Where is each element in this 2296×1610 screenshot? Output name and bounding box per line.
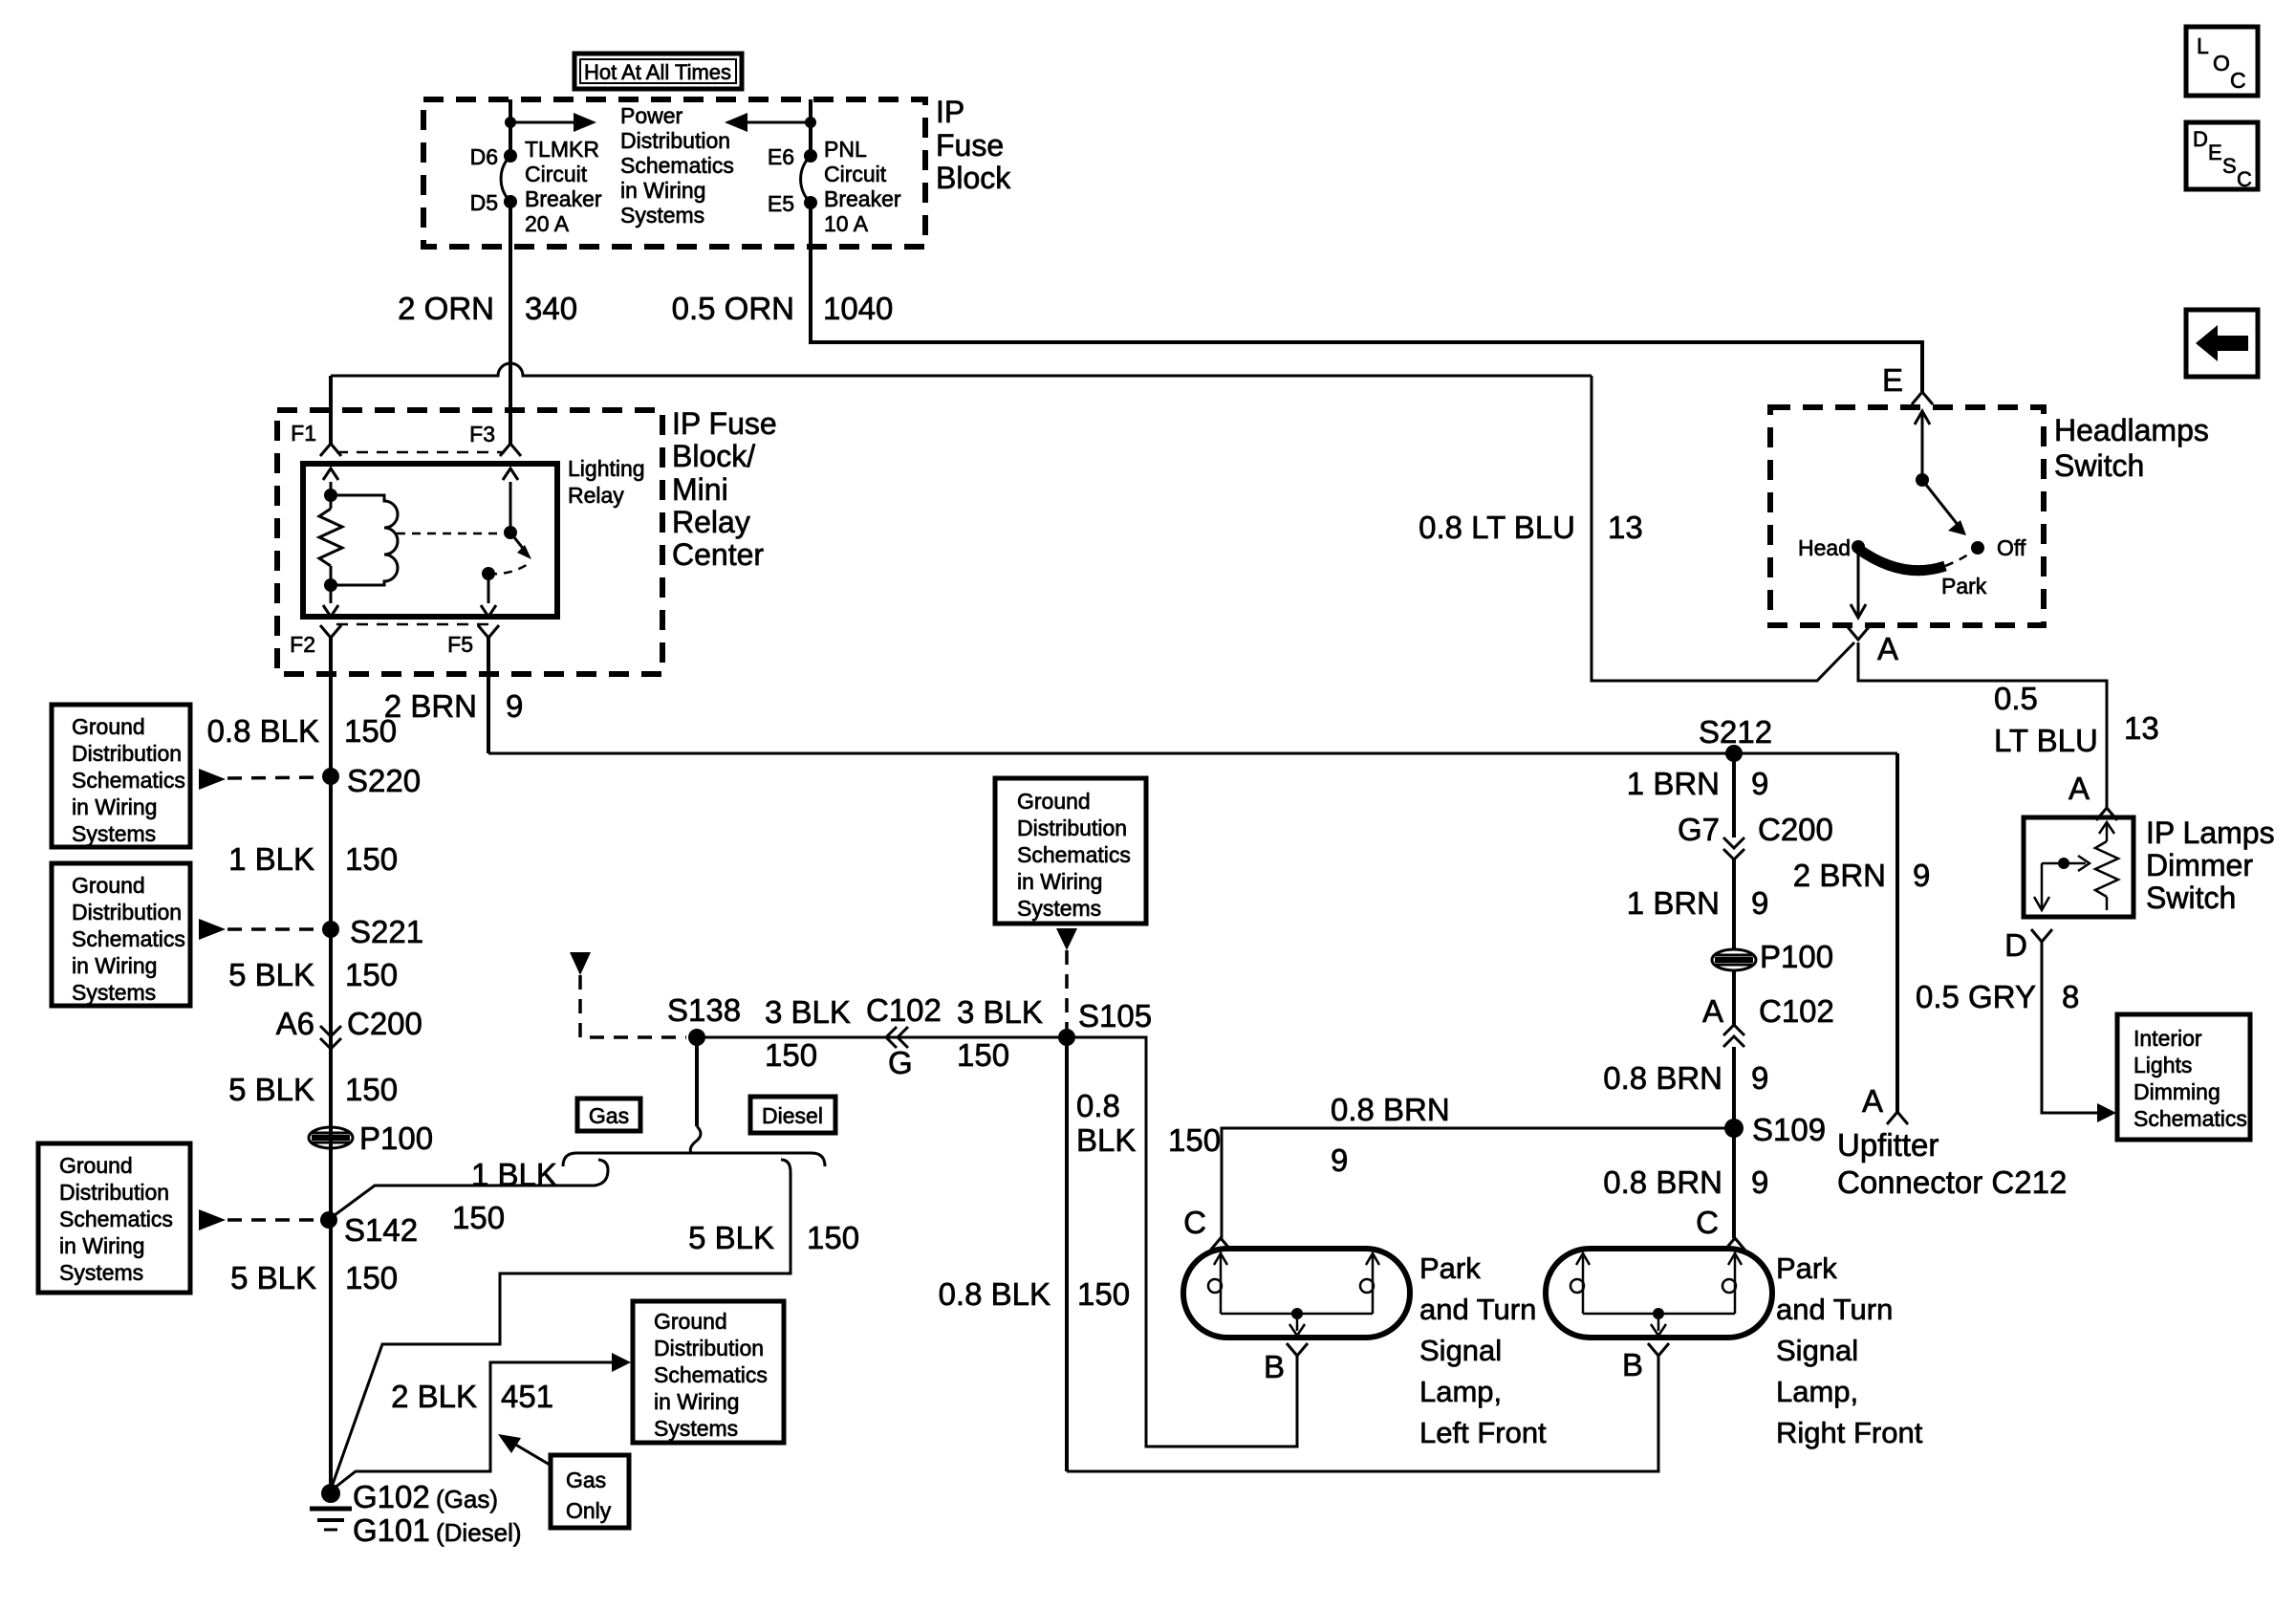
svg-text:D: D xyxy=(2004,927,2027,963)
svg-text:3 BLK: 3 BLK xyxy=(765,994,851,1030)
svg-text:150: 150 xyxy=(345,1260,398,1295)
svg-text:Signal: Signal xyxy=(1419,1334,1502,1367)
svg-text:G7: G7 xyxy=(1678,812,1720,847)
svg-text:A: A xyxy=(1702,993,1723,1029)
svg-text:LT BLU: LT BLU xyxy=(1994,723,2098,758)
svg-text:1 BLK: 1 BLK xyxy=(471,1157,557,1192)
svg-text:G102: G102 xyxy=(353,1479,430,1514)
svg-text:Systems: Systems xyxy=(1017,896,1101,921)
svg-text:E6: E6 xyxy=(768,144,794,169)
svg-text:0.8: 0.8 xyxy=(1076,1088,1120,1123)
svg-text:(Diesel): (Diesel) xyxy=(436,1518,522,1547)
svg-text:Only: Only xyxy=(566,1498,612,1523)
svg-text:S142: S142 xyxy=(344,1212,418,1248)
svg-text:S: S xyxy=(2222,154,2237,178)
svg-text:Systems: Systems xyxy=(72,821,156,846)
svg-text:A: A xyxy=(1862,1083,1883,1119)
svg-text:13: 13 xyxy=(2124,710,2159,746)
svg-text:Mini: Mini xyxy=(672,472,728,507)
svg-text:and Turn: and Turn xyxy=(1419,1293,1536,1326)
svg-text:Park: Park xyxy=(1941,574,1987,598)
svg-text:E5: E5 xyxy=(768,191,794,216)
svg-text:D6: D6 xyxy=(470,144,498,169)
svg-text:G101: G101 xyxy=(353,1512,430,1548)
svg-text:2 BLK: 2 BLK xyxy=(391,1379,477,1414)
svg-text:150: 150 xyxy=(452,1200,505,1235)
svg-text:Dimmer: Dimmer xyxy=(2146,848,2253,882)
svg-text:13: 13 xyxy=(1608,510,1643,545)
svg-text:IP: IP xyxy=(936,95,964,129)
svg-text:10 A: 10 A xyxy=(824,211,869,236)
svg-text:PNL: PNL xyxy=(824,137,867,162)
svg-text:150: 150 xyxy=(957,1037,1009,1073)
svg-text:TLMKR: TLMKR xyxy=(525,137,599,162)
svg-text:G: G xyxy=(888,1045,913,1080)
svg-text:5 BLK: 5 BLK xyxy=(688,1220,774,1255)
svg-text:150: 150 xyxy=(807,1220,859,1255)
svg-text:B: B xyxy=(1264,1349,1285,1384)
svg-text:Interior: Interior xyxy=(2134,1026,2202,1051)
svg-text:5 BLK: 5 BLK xyxy=(230,1260,316,1295)
svg-text:in Wiring: in Wiring xyxy=(654,1389,739,1414)
svg-text:1040: 1040 xyxy=(823,291,893,326)
svg-text:Ground: Ground xyxy=(72,873,145,898)
svg-text:P100: P100 xyxy=(359,1120,433,1156)
svg-text:150: 150 xyxy=(345,1072,398,1107)
svg-text:Schematics: Schematics xyxy=(72,926,185,951)
svg-text:Off: Off xyxy=(1997,535,2026,560)
svg-text:E: E xyxy=(2208,141,2222,164)
svg-text:3 BLK: 3 BLK xyxy=(957,994,1043,1030)
svg-text:Systems: Systems xyxy=(620,203,704,228)
svg-text:in Wiring: in Wiring xyxy=(59,1233,144,1258)
svg-text:8: 8 xyxy=(2062,979,2079,1014)
svg-text:Block: Block xyxy=(936,161,1011,195)
svg-text:Ground: Ground xyxy=(654,1309,727,1334)
svg-text:Distribution: Distribution xyxy=(72,900,182,925)
svg-text:1 BRN: 1 BRN xyxy=(1627,885,1720,921)
svg-text:Circuit: Circuit xyxy=(525,162,588,186)
svg-text:9: 9 xyxy=(1751,766,1768,801)
svg-text:Gas: Gas xyxy=(589,1103,629,1128)
svg-text:L: L xyxy=(2197,33,2209,58)
svg-text:O: O xyxy=(2213,51,2230,76)
svg-text:S105: S105 xyxy=(1078,998,1152,1033)
svg-text:B: B xyxy=(1622,1347,1643,1382)
svg-text:C102: C102 xyxy=(1759,993,1834,1029)
svg-text:Distribution: Distribution xyxy=(1017,816,1127,840)
svg-text:C: C xyxy=(1183,1205,1206,1240)
svg-text:F3: F3 xyxy=(469,422,495,446)
svg-text:in Wiring: in Wiring xyxy=(620,178,705,203)
svg-text:150: 150 xyxy=(344,713,397,749)
svg-text:0.5 GRY: 0.5 GRY xyxy=(1916,979,2036,1014)
svg-text:C200: C200 xyxy=(1758,812,1833,847)
svg-text:Center: Center xyxy=(672,537,764,572)
svg-text:9: 9 xyxy=(1751,885,1768,921)
svg-text:Schematics: Schematics xyxy=(1017,842,1131,867)
svg-text:2 BRN: 2 BRN xyxy=(1793,858,1886,893)
svg-text:Park: Park xyxy=(1776,1251,1837,1285)
svg-text:Distribution: Distribution xyxy=(72,741,182,766)
svg-text:0.8 BRN: 0.8 BRN xyxy=(1603,1060,1722,1096)
svg-text:Lights: Lights xyxy=(2134,1053,2192,1077)
svg-text:Headlamps: Headlamps xyxy=(2054,413,2209,447)
svg-text:Head: Head xyxy=(1798,535,1851,560)
svg-text:Ground: Ground xyxy=(72,714,145,739)
svg-text:Ground: Ground xyxy=(59,1153,133,1178)
svg-text:Circuit: Circuit xyxy=(824,162,887,186)
svg-text:150: 150 xyxy=(1077,1276,1130,1312)
svg-text:Gas: Gas xyxy=(566,1468,606,1492)
svg-text:S138: S138 xyxy=(667,992,741,1028)
svg-text:D5: D5 xyxy=(470,190,498,215)
svg-text:Systems: Systems xyxy=(654,1416,738,1441)
svg-text:9: 9 xyxy=(1913,858,1930,893)
svg-text:BLK: BLK xyxy=(1076,1122,1136,1158)
svg-text:0.5 ORN: 0.5 ORN xyxy=(672,291,794,326)
svg-text:Schematics: Schematics xyxy=(654,1362,768,1387)
svg-text:9: 9 xyxy=(1751,1060,1768,1096)
svg-text:Ground: Ground xyxy=(1017,789,1091,814)
svg-text:340: 340 xyxy=(525,291,577,326)
svg-text:Schematics: Schematics xyxy=(72,768,185,793)
svg-text:Diesel: Diesel xyxy=(762,1103,823,1128)
svg-text:Switch: Switch xyxy=(2146,881,2236,915)
svg-text:in Wiring: in Wiring xyxy=(1017,869,1102,894)
svg-text:Lamp,: Lamp, xyxy=(1419,1375,1502,1408)
svg-text:5 BLK: 5 BLK xyxy=(228,1072,314,1107)
svg-text:1 BLK: 1 BLK xyxy=(228,841,314,877)
svg-text:D: D xyxy=(2193,127,2208,151)
svg-text:E: E xyxy=(1882,362,1903,398)
svg-text:F2: F2 xyxy=(290,632,315,657)
svg-text:Park: Park xyxy=(1419,1251,1481,1285)
svg-text:Distribution: Distribution xyxy=(654,1336,764,1360)
svg-text:Distribution: Distribution xyxy=(620,128,730,153)
svg-text:A6: A6 xyxy=(276,1006,314,1041)
svg-text:0.5: 0.5 xyxy=(1994,681,2038,716)
svg-text:9: 9 xyxy=(1751,1164,1768,1200)
svg-text:9: 9 xyxy=(506,688,523,724)
svg-text:Distribution: Distribution xyxy=(59,1180,169,1205)
svg-text:Block/: Block/ xyxy=(672,439,755,473)
svg-text:Switch: Switch xyxy=(2054,448,2144,483)
svg-text:C102: C102 xyxy=(866,992,942,1028)
svg-text:(Gas): (Gas) xyxy=(436,1485,498,1513)
svg-text:and Turn: and Turn xyxy=(1776,1293,1893,1326)
svg-text:S109: S109 xyxy=(1752,1112,1826,1147)
svg-text:150: 150 xyxy=(765,1037,817,1073)
svg-text:Relay: Relay xyxy=(672,505,750,539)
svg-text:451: 451 xyxy=(501,1379,553,1414)
svg-text:Lamp,: Lamp, xyxy=(1776,1375,1858,1408)
svg-text:0.8 LT BLU: 0.8 LT BLU xyxy=(1419,510,1575,545)
svg-text:Dimming: Dimming xyxy=(2134,1079,2220,1104)
svg-text:Left Front: Left Front xyxy=(1419,1416,1547,1449)
svg-text:Schematics: Schematics xyxy=(620,153,734,178)
svg-text:0.8 BRN: 0.8 BRN xyxy=(1331,1092,1450,1127)
svg-text:Breaker: Breaker xyxy=(824,186,901,211)
svg-text:Schematics: Schematics xyxy=(59,1207,173,1231)
svg-text:Relay: Relay xyxy=(568,483,624,508)
svg-text:Right Front: Right Front xyxy=(1776,1416,1923,1449)
svg-text:Systems: Systems xyxy=(72,980,156,1005)
svg-text:9: 9 xyxy=(1331,1142,1348,1178)
svg-text:Fuse: Fuse xyxy=(936,128,1004,163)
svg-text:P100: P100 xyxy=(1760,939,1833,974)
svg-text:IP Fuse: IP Fuse xyxy=(672,406,777,441)
svg-text:20 A: 20 A xyxy=(525,211,570,236)
svg-text:Hot At All Times: Hot At All Times xyxy=(584,60,731,84)
svg-text:in Wiring: in Wiring xyxy=(72,953,157,978)
svg-text:Systems: Systems xyxy=(59,1260,143,1285)
svg-text:in Wiring: in Wiring xyxy=(72,794,157,819)
svg-text:C: C xyxy=(1696,1205,1719,1240)
svg-text:150: 150 xyxy=(1168,1122,1221,1158)
svg-text:C: C xyxy=(2230,68,2246,93)
svg-text:Connector C212: Connector C212 xyxy=(1837,1164,2067,1200)
svg-text:Breaker: Breaker xyxy=(525,186,602,211)
svg-text:A: A xyxy=(1877,631,1898,666)
svg-text:5 BLK: 5 BLK xyxy=(228,957,314,992)
svg-text:F1: F1 xyxy=(291,421,316,446)
svg-text:IP Lamps: IP Lamps xyxy=(2146,816,2275,850)
svg-text:Schematics: Schematics xyxy=(2134,1106,2247,1131)
svg-text:C: C xyxy=(2237,167,2252,191)
svg-text:Lighting: Lighting xyxy=(568,456,645,481)
svg-text:2 ORN: 2 ORN xyxy=(398,291,494,326)
svg-text:0.8 BRN: 0.8 BRN xyxy=(1603,1164,1722,1200)
svg-text:S221: S221 xyxy=(350,914,423,949)
svg-text:2 BRN: 2 BRN xyxy=(384,688,477,724)
svg-text:S220: S220 xyxy=(347,763,421,798)
svg-text:A: A xyxy=(2069,771,2090,806)
svg-text:1 BRN: 1 BRN xyxy=(1627,766,1720,801)
svg-text:S212: S212 xyxy=(1699,714,1772,750)
svg-text:0.8 BLK: 0.8 BLK xyxy=(207,713,319,749)
svg-text:150: 150 xyxy=(345,841,398,877)
svg-text:150: 150 xyxy=(345,957,398,992)
svg-text:Upfitter: Upfitter xyxy=(1837,1127,1939,1163)
svg-text:0.8 BLK: 0.8 BLK xyxy=(939,1276,1051,1312)
svg-text:C200: C200 xyxy=(347,1006,422,1041)
svg-text:F5: F5 xyxy=(447,632,473,657)
svg-text:Signal: Signal xyxy=(1776,1334,1858,1367)
svg-text:Power: Power xyxy=(620,103,683,128)
